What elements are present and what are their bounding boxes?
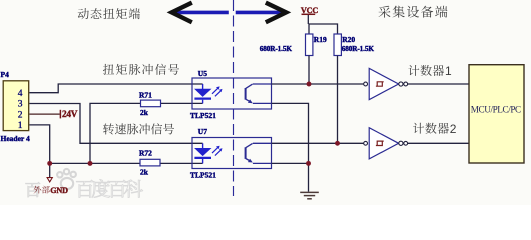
wire: P4 pin2 to 24V power port <box>29 113 60 115</box>
power port VCC <box>301 6 318 24</box>
wire: inverter 2 output to MCU box <box>408 142 469 144</box>
svg-text:MCU/PLC/PC: MCU/PLC/PC <box>471 104 521 114</box>
schmitt inverter 2 <box>364 128 408 159</box>
label: 采集设备端 (acquisition device side) <box>378 6 447 18</box>
resistor R72 2k (speed LED series) <box>139 148 160 176</box>
wire: U5 emitter down to ground <box>272 103 309 191</box>
svg-text:1: 1 <box>18 121 23 131</box>
watermark: baidu baike logo (decorative) <box>57 169 76 189</box>
resistor R71 2k (torque LED series) <box>139 90 161 117</box>
svg-text:TLP521: TLP521 <box>190 111 216 120</box>
svg-text:Header 4: Header 4 <box>1 134 30 143</box>
label: 转速脉冲信号 (speed pulse signal) <box>103 123 174 134</box>
resistor R19 680R-1.5K (pullup counter1) <box>260 34 327 56</box>
label: 扭矩脉冲信号 (torque pulse signal) <box>103 64 179 75</box>
svg-text:3: 3 <box>18 100 23 110</box>
wire: P4 pin4 to U5 LED anode (torque signal) <box>29 84 202 93</box>
svg-text:2k: 2k <box>140 168 149 177</box>
wire: inverter 1 output to MCU box <box>408 83 469 85</box>
svg-text:U5: U5 <box>198 69 207 78</box>
svg-text:1: 1 <box>445 64 452 78</box>
wire: U5 collector to inverter 1 input <box>272 83 364 85</box>
direction arrow pointing left <box>172 3 229 23</box>
junction: R20 on U7 collector net <box>335 141 340 146</box>
label: 计数器2 (counter 2) <box>413 122 457 136</box>
wire: U7 collector to inverter 2 input <box>272 142 364 144</box>
wire: P4 pin3 to U7 LED anode (speed signal) <box>29 104 202 144</box>
wire: R71 to U5 LED cathode <box>161 102 203 104</box>
svg-text:U7: U7 <box>198 127 207 136</box>
schmitt inverter 1 <box>364 68 408 99</box>
svg-text:2: 2 <box>450 122 457 136</box>
svg-text:2k: 2k <box>140 108 149 117</box>
label: 计数器1 (counter 1) <box>408 64 452 78</box>
wire: P4 pin1 down to external ground rail <box>29 125 49 163</box>
svg-text:R71: R71 <box>139 90 152 99</box>
svg-text:680R-1.5K: 680R-1.5K <box>260 45 293 53</box>
svg-text:680R-1.5K: 680R-1.5K <box>342 45 375 53</box>
junction: pin1 / external gnd rail <box>47 161 52 166</box>
wire: external ground rail to R72 <box>50 162 140 164</box>
svg-text:P4: P4 <box>1 70 10 79</box>
direction arrow pointing right <box>236 3 287 23</box>
resistor R20 680R-1.5K (pullup counter2) <box>334 34 374 56</box>
optocoupler U5 TLP521 <box>190 69 272 120</box>
svg-text:R20: R20 <box>342 35 355 44</box>
wire: R20 bottom to collector net of U7 <box>337 56 339 144</box>
svg-text:GND: GND <box>50 186 68 195</box>
svg-text:R19: R19 <box>314 35 327 44</box>
block MCU/PLC/PC <box>469 65 524 163</box>
svg-text:R72: R72 <box>139 148 152 157</box>
optocoupler U7 TLP521 <box>190 127 272 180</box>
power port 24V <box>60 110 77 120</box>
isolation boundary dashed line <box>233 0 235 196</box>
wire: VCC tee to R19 and R20 <box>309 24 338 34</box>
svg-text:4: 4 <box>18 89 23 99</box>
label: 动态扭矩端 (dynamic torque side) <box>78 8 140 19</box>
svg-text:TLP521: TLP521 <box>190 171 216 180</box>
junction: R19 on U5 collector net <box>307 82 312 87</box>
wire: R19 bottom to collector net of U5 <box>308 56 310 85</box>
wire: ground rail branch up to R71 <box>90 103 141 163</box>
wire: U7 emitter to ground node <box>272 162 309 164</box>
wire: R72 to U7 LED cathode <box>160 162 203 164</box>
connector P4 (Header 4) <box>1 70 30 143</box>
svg-text:2: 2 <box>18 110 23 120</box>
svg-text:24V: 24V <box>62 110 78 120</box>
junction: emitter gnd node <box>306 161 311 166</box>
ground (GND power symbol) <box>300 192 319 198</box>
junction: R71 branch on gnd rail <box>88 161 93 166</box>
power port 外部GND (external ground) <box>34 163 69 194</box>
